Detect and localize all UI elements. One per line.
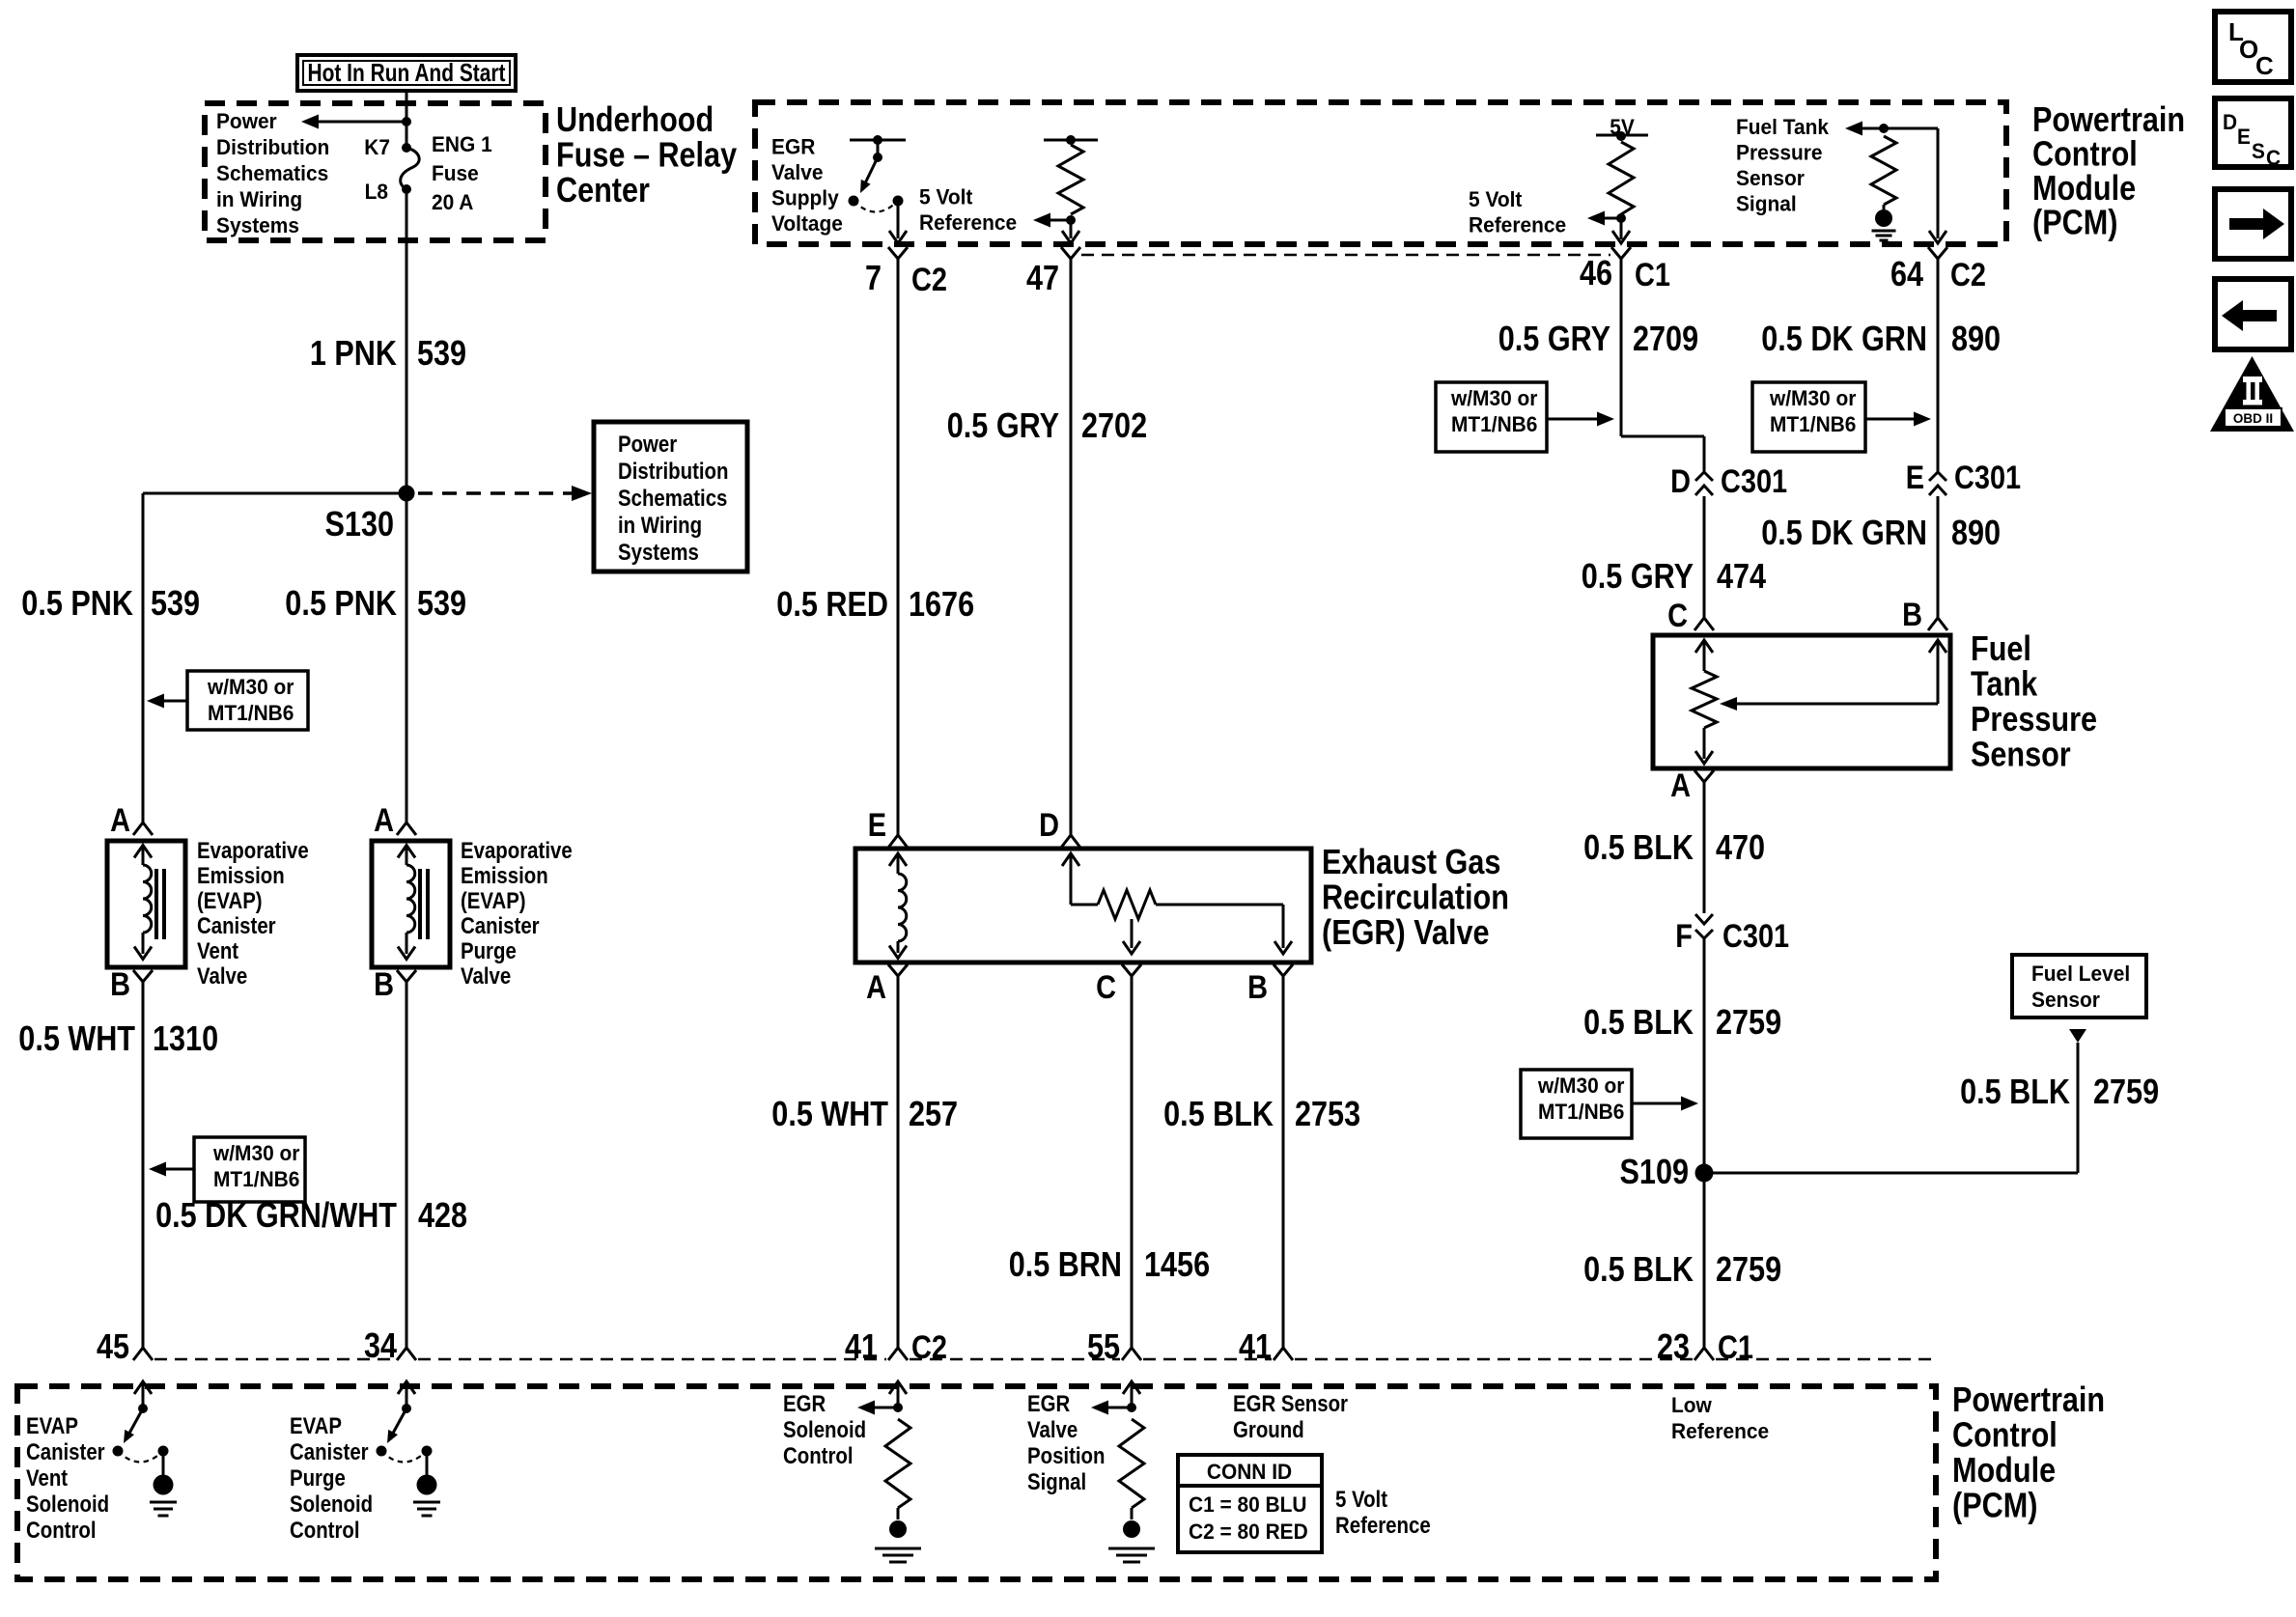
svg-text:Powertrain: Powertrain bbox=[1952, 1380, 2105, 1419]
svg-text:Signal: Signal bbox=[1027, 1469, 1086, 1495]
svg-text:B: B bbox=[1247, 969, 1268, 1006]
svg-text:MT1/NB6: MT1/NB6 bbox=[1770, 412, 1856, 436]
svg-text:E: E bbox=[868, 807, 886, 844]
svg-text:Distribution: Distribution bbox=[216, 135, 329, 159]
svg-text:Control: Control bbox=[1952, 1415, 2058, 1455]
svg-text:C2 = 80 RED: C2 = 80 RED bbox=[1189, 1519, 1308, 1544]
svg-text:2702: 2702 bbox=[1081, 405, 1147, 445]
svg-text:OBD II: OBD II bbox=[2233, 411, 2273, 426]
svg-text:MT1/NB6: MT1/NB6 bbox=[1538, 1100, 1624, 1124]
fuel tank pressure sensor box bbox=[1653, 635, 1950, 768]
svg-text:1676: 1676 bbox=[909, 584, 974, 624]
svg-text:2759: 2759 bbox=[1716, 1249, 1781, 1289]
svg-text:w/M30 or: w/M30 or bbox=[1769, 386, 1857, 410]
svg-text:Canister: Canister bbox=[461, 913, 540, 939]
svg-text:EVAP: EVAP bbox=[26, 1413, 78, 1439]
wire: 0.5 DK GRN 890 (upper) bbox=[1937, 273, 1940, 472]
wire: branch from S130 to vent valve bbox=[143, 492, 406, 495]
svg-text:E: E bbox=[1906, 460, 1924, 496]
svg-text:Fuel Level: Fuel Level bbox=[2031, 962, 2130, 986]
EGR valve supply voltage switch bbox=[850, 139, 906, 142]
svg-text:890: 890 bbox=[1951, 319, 2001, 358]
wire: 0.5 GRY 2709 (46 C1 with jog) bbox=[1620, 273, 1623, 436]
svg-text:0.5 BLK: 0.5 BLK bbox=[1583, 1249, 1694, 1289]
svg-text:Power: Power bbox=[216, 109, 277, 133]
svg-text:B: B bbox=[110, 966, 130, 1003]
svg-text:Evaporative: Evaporative bbox=[197, 838, 309, 864]
svg-text:C2: C2 bbox=[911, 262, 947, 298]
svg-text:Hot In Run And Start: Hot In Run And Start bbox=[308, 58, 506, 87]
svg-text:0.5 BRN: 0.5 BRN bbox=[1009, 1244, 1122, 1284]
wire: 0.5 WHT 257 bbox=[897, 990, 900, 1348]
svg-text:Distribution: Distribution bbox=[618, 459, 729, 485]
svg-text:F: F bbox=[1675, 918, 1693, 955]
svg-text:Emission: Emission bbox=[197, 863, 285, 889]
svg-text:0.5 PNK: 0.5 PNK bbox=[285, 583, 397, 623]
svg-text:A: A bbox=[866, 969, 886, 1006]
connector E C301 bbox=[1929, 472, 1946, 481]
svg-text:C1: C1 bbox=[1635, 257, 1670, 293]
splice S109 bbox=[1695, 1164, 1714, 1183]
svg-text:Reference: Reference bbox=[919, 210, 1017, 235]
wire: 0.5 RED 1676 bbox=[897, 273, 900, 835]
svg-text:Module: Module bbox=[1952, 1450, 2056, 1490]
svg-text:C2: C2 bbox=[1950, 257, 1986, 293]
svg-text:Control: Control bbox=[26, 1518, 97, 1544]
svg-text:64: 64 bbox=[1890, 254, 1923, 293]
svg-text:Evaporative: Evaporative bbox=[461, 838, 573, 864]
svg-text:41: 41 bbox=[845, 1326, 878, 1366]
svg-text:C301: C301 bbox=[1954, 460, 2021, 496]
dashed box: Powertrain Control Module (bottom) bbox=[17, 1386, 1936, 1579]
arrow to power distribution schematics (left) bbox=[319, 121, 406, 124]
pin 55 bbox=[1122, 1348, 1141, 1360]
wire: 0.5 PNK 539 (right) bbox=[406, 493, 408, 811]
pin 7 C2 bbox=[888, 247, 908, 259]
callout: w/M30 or MT1/NB6 (lower left) bbox=[194, 1137, 305, 1202]
pin 41 C2 bbox=[888, 1348, 908, 1360]
svg-text:41: 41 bbox=[1239, 1326, 1272, 1366]
pin E (EGR valve) bbox=[888, 835, 908, 848]
svg-text:890: 890 bbox=[1951, 513, 2001, 552]
svg-text:(EVAP): (EVAP) bbox=[197, 888, 263, 914]
pin 64 C2 bbox=[1928, 247, 1947, 259]
svg-text:Signal: Signal bbox=[1736, 192, 1797, 216]
svg-text:C301: C301 bbox=[1722, 918, 1789, 955]
svg-text:539: 539 bbox=[417, 333, 466, 373]
svg-text:C: C bbox=[1667, 598, 1688, 634]
svg-text:Control: Control bbox=[290, 1518, 360, 1544]
wire: 0.5 BLK 2759 (above S109) bbox=[1703, 938, 1706, 1173]
pin 23 C1 bbox=[1694, 1348, 1714, 1360]
svg-text:1310: 1310 bbox=[153, 1018, 218, 1058]
wire: 0.5 BLK 2759 (below S109) bbox=[1703, 1173, 1706, 1348]
svg-text:2759: 2759 bbox=[2093, 1072, 2159, 1111]
svg-text:Exhaust Gas: Exhaust Gas bbox=[1322, 842, 1500, 881]
svg-text:Pressure: Pressure bbox=[1971, 699, 2097, 739]
svg-text:Systems: Systems bbox=[216, 213, 299, 237]
svg-text:w/M30 or: w/M30 or bbox=[212, 1141, 300, 1165]
pin C (fuel tank pressure sensor) bbox=[1694, 618, 1714, 630]
svg-text:55: 55 bbox=[1087, 1326, 1120, 1366]
wire: 0.5 DK GRN 890 (lower) bbox=[1937, 502, 1940, 618]
svg-text:Vent: Vent bbox=[197, 938, 238, 964]
svg-text:w/M30 or: w/M30 or bbox=[1450, 386, 1538, 410]
svg-text:C1 = 80 BLU: C1 = 80 BLU bbox=[1189, 1492, 1307, 1517]
svg-text:257: 257 bbox=[909, 1094, 958, 1133]
wire: 0.5 WHT 1310 bbox=[142, 996, 145, 1348]
svg-text:A: A bbox=[110, 802, 130, 839]
connector dashed line (top, C1/C2) bbox=[1081, 254, 1610, 257]
icon: arrow right bbox=[2215, 189, 2291, 259]
svg-text:C301: C301 bbox=[1721, 463, 1787, 500]
svg-text:46: 46 bbox=[1580, 253, 1612, 293]
connector F C301 bbox=[1695, 914, 1713, 924]
pin B (fuel tank pressure sensor) bbox=[1928, 618, 1947, 630]
svg-text:Valve: Valve bbox=[1027, 1417, 1078, 1443]
svg-text:428: 428 bbox=[418, 1195, 467, 1235]
svg-text:Solenoid: Solenoid bbox=[783, 1417, 866, 1443]
svg-text:Center: Center bbox=[556, 170, 650, 209]
pin 45 bbox=[133, 1348, 153, 1360]
svg-text:K7: K7 bbox=[364, 135, 390, 159]
svg-text:MT1/NB6: MT1/NB6 bbox=[1451, 412, 1537, 436]
svg-text:Reference: Reference bbox=[1335, 1513, 1431, 1539]
svg-text:470: 470 bbox=[1716, 827, 1765, 867]
svg-text:2759: 2759 bbox=[1716, 1002, 1781, 1042]
svg-text:Canister: Canister bbox=[26, 1439, 105, 1465]
icon: DESC bbox=[2215, 98, 2291, 167]
callout: w/M30 or MT1/NB6 (left of pin 46 wire) bbox=[1436, 382, 1547, 452]
wire: 0.5 BLK 2753 bbox=[1282, 990, 1285, 1348]
svg-text:0.5 DK GRN/WHT: 0.5 DK GRN/WHT bbox=[155, 1195, 397, 1235]
svg-text:A: A bbox=[1670, 767, 1691, 804]
svg-text:Fuse – Relay: Fuse – Relay bbox=[556, 135, 737, 175]
svg-text:CONN ID: CONN ID bbox=[1207, 1460, 1292, 1484]
pin B (vent valve) bbox=[133, 970, 153, 982]
svg-text:Emission: Emission bbox=[461, 863, 548, 889]
svg-text:0.5 DK GRN: 0.5 DK GRN bbox=[1761, 319, 1927, 358]
pin 47 bbox=[1061, 247, 1080, 259]
pin A (fuel tank pressure sensor) bbox=[1694, 770, 1714, 782]
svg-text:Control: Control bbox=[783, 1443, 854, 1469]
svg-text:Ground: Ground bbox=[1233, 1417, 1304, 1443]
svg-text:EGR Sensor: EGR Sensor bbox=[1233, 1391, 1348, 1417]
svg-text:EVAP: EVAP bbox=[290, 1413, 342, 1439]
box: Hot In Run And Start bbox=[297, 55, 516, 91]
svg-text:Pressure: Pressure bbox=[1736, 141, 1823, 165]
svg-text:Purge: Purge bbox=[461, 938, 517, 964]
svg-text:5 Volt: 5 Volt bbox=[1469, 187, 1523, 211]
junction dot at fuse feed bbox=[402, 117, 411, 126]
icon: LOC bbox=[2215, 12, 2291, 82]
svg-text:Solenoid: Solenoid bbox=[290, 1492, 373, 1518]
svg-text:D: D bbox=[1039, 807, 1059, 844]
EVAP canister vent solenoid control switch bbox=[134, 1381, 152, 1394]
svg-text:Sensor: Sensor bbox=[1971, 735, 2071, 774]
dashed arrow: S130 to power distribution schematics bbox=[418, 491, 572, 495]
EGR valve box bbox=[855, 849, 1311, 962]
svg-text:C2: C2 bbox=[911, 1329, 947, 1366]
svg-text:MT1/NB6: MT1/NB6 bbox=[208, 701, 294, 725]
svg-text:2709: 2709 bbox=[1633, 319, 1698, 358]
callout: w/M30 or MT1/NB6 (upper left) bbox=[187, 671, 308, 730]
pin B (EGR valve) bbox=[1274, 964, 1293, 976]
icon: OBD II triangle bbox=[2210, 356, 2294, 432]
svg-text:0.5 RED: 0.5 RED bbox=[776, 584, 888, 624]
svg-text:0.5 BLK: 0.5 BLK bbox=[1960, 1072, 2070, 1111]
svg-text:Valve: Valve bbox=[771, 160, 824, 184]
svg-text:47: 47 bbox=[1026, 258, 1059, 297]
svg-text:539: 539 bbox=[151, 583, 200, 623]
svg-text:Canister: Canister bbox=[197, 913, 276, 939]
svg-text:Fuel Tank: Fuel Tank bbox=[1736, 115, 1830, 139]
wire: 0.5 GRY 2702 bbox=[1070, 273, 1073, 835]
svg-text:0.5 BLK: 0.5 BLK bbox=[1583, 827, 1694, 867]
svg-text:EGR: EGR bbox=[771, 135, 815, 159]
svg-text:D: D bbox=[2223, 110, 2237, 134]
svg-text:B: B bbox=[1902, 597, 1922, 633]
svg-text:23: 23 bbox=[1657, 1326, 1690, 1366]
box: Fuel Level Sensor bbox=[2012, 955, 2146, 1018]
svg-text:E: E bbox=[2237, 125, 2251, 149]
svg-text:Sensor: Sensor bbox=[1736, 166, 1805, 190]
svg-text:7: 7 bbox=[865, 258, 882, 297]
pin 34 bbox=[397, 1348, 416, 1360]
svg-text:1 PNK: 1 PNK bbox=[310, 333, 397, 373]
box: Power Distribution Schematics in Wiring Systems bbox=[594, 422, 747, 572]
EVAP canister vent valve bbox=[107, 841, 185, 967]
pin C (EGR valve) bbox=[1122, 964, 1141, 976]
wire: 0.5 BRN 1456 bbox=[1131, 990, 1134, 1348]
icon: arrow left bbox=[2215, 279, 2291, 349]
svg-text:Underhood: Underhood bbox=[556, 99, 714, 139]
svg-text:0.5 GRY: 0.5 GRY bbox=[1498, 319, 1610, 358]
svg-text:20 A: 20 A bbox=[432, 190, 474, 214]
svg-text:45: 45 bbox=[97, 1326, 129, 1366]
svg-text:C: C bbox=[2255, 51, 2274, 80]
svg-text:0.5 PNK: 0.5 PNK bbox=[21, 583, 133, 623]
pin A (purge valve) bbox=[406, 811, 408, 823]
svg-text:Fuel: Fuel bbox=[1971, 628, 2031, 668]
wire: 0.5 BLK 2759 (fuel level sensor branch) bbox=[2069, 1029, 2086, 1043]
svg-text:Canister: Canister bbox=[290, 1439, 369, 1465]
svg-text:Solenoid: Solenoid bbox=[26, 1492, 109, 1518]
EGR solenoid control (in PCM) bbox=[889, 1381, 907, 1394]
resistor: 5 volt reference (pin 47) bbox=[1044, 139, 1098, 142]
svg-text:0.5 WHT: 0.5 WHT bbox=[18, 1018, 135, 1058]
connector D C301 bbox=[1695, 472, 1713, 481]
wire: 0.5 BLK 470 bbox=[1703, 796, 1706, 913]
svg-text:0.5 WHT: 0.5 WHT bbox=[771, 1094, 888, 1133]
svg-text:EGR: EGR bbox=[783, 1391, 826, 1417]
svg-text:EGR: EGR bbox=[1027, 1391, 1070, 1417]
svg-text:Systems: Systems bbox=[618, 540, 699, 566]
svg-text:1456: 1456 bbox=[1144, 1244, 1210, 1284]
svg-text:5 Volt: 5 Volt bbox=[919, 185, 973, 209]
svg-text:w/M30 or: w/M30 or bbox=[1537, 1073, 1625, 1098]
svg-text:0.5 BLK: 0.5 BLK bbox=[1583, 1002, 1694, 1042]
svg-text:Power: Power bbox=[618, 432, 677, 458]
svg-text:in Wiring: in Wiring bbox=[618, 513, 702, 539]
svg-text:C1: C1 bbox=[1718, 1329, 1753, 1366]
svg-text:(EGR) Valve: (EGR) Valve bbox=[1322, 912, 1490, 952]
svg-text:Schematics: Schematics bbox=[618, 486, 727, 512]
callout: w/M30 or MT1/NB6 (near S109) bbox=[1521, 1070, 1632, 1138]
connector dashed line (PCM bottom pins) bbox=[154, 1358, 395, 1361]
dashed box: Underhood Fuse - Relay Center bbox=[205, 103, 546, 240]
wire: 0.5 DK GRN/WHT 428 bbox=[406, 996, 408, 1348]
pin 41 (EGR sensor ground) bbox=[1274, 1348, 1293, 1360]
svg-text:S130: S130 bbox=[325, 504, 395, 544]
svg-text:S: S bbox=[2252, 139, 2265, 163]
svg-text:0.5 GRY: 0.5 GRY bbox=[947, 405, 1059, 445]
svg-text:2753: 2753 bbox=[1295, 1094, 1360, 1133]
svg-text:C: C bbox=[1096, 969, 1116, 1006]
svg-text:539: 539 bbox=[417, 583, 466, 623]
pin B (purge valve) bbox=[397, 970, 416, 982]
svg-text:Position: Position bbox=[1027, 1443, 1106, 1469]
svg-text:Schematics: Schematics bbox=[216, 161, 328, 185]
svg-text:Tank: Tank bbox=[1971, 664, 2038, 704]
table: CONN ID (C1 = 80 BLU / C2 = 80 RED) bbox=[1178, 1455, 1322, 1552]
svg-text:Recirculation: Recirculation bbox=[1322, 878, 1509, 917]
svg-text:0.5 BLK: 0.5 BLK bbox=[1163, 1094, 1274, 1133]
svg-text:ENG 1: ENG 1 bbox=[432, 132, 492, 156]
svg-text:474: 474 bbox=[1717, 556, 1766, 596]
svg-text:Vent: Vent bbox=[26, 1465, 68, 1492]
pin A (vent valve) bbox=[142, 811, 145, 823]
svg-text:5 Volt: 5 Volt bbox=[1335, 1487, 1387, 1513]
callout: w/M30 or MT1/NB6 (left of pin 64 wire) bbox=[1752, 382, 1865, 452]
EVAP canister purge solenoid control switch bbox=[398, 1381, 415, 1394]
svg-text:Reference: Reference bbox=[1469, 213, 1566, 237]
svg-text:Valve: Valve bbox=[197, 963, 247, 990]
splice S130 bbox=[399, 486, 415, 502]
svg-text:w/M30 or: w/M30 or bbox=[207, 675, 294, 699]
svg-text:0.5 DK GRN: 0.5 DK GRN bbox=[1761, 513, 1927, 552]
svg-text:Low: Low bbox=[1671, 1393, 1713, 1417]
pin 46 C1 bbox=[1611, 247, 1631, 259]
wire: 1 PNK 539 bbox=[406, 189, 408, 493]
svg-text:S109: S109 bbox=[1620, 1152, 1690, 1191]
svg-text:C: C bbox=[2266, 146, 2281, 170]
svg-text:Valve: Valve bbox=[461, 963, 511, 990]
svg-text:Reference: Reference bbox=[1671, 1419, 1769, 1443]
svg-text:Voltage: Voltage bbox=[771, 211, 843, 236]
svg-text:L8: L8 bbox=[365, 180, 388, 204]
EGR valve solenoid coil bbox=[889, 853, 907, 866]
pin D (EGR valve) bbox=[1061, 835, 1080, 848]
fuse ENG 1 20 A (K7-L8) bbox=[406, 93, 408, 148]
svg-text:in Wiring: in Wiring bbox=[216, 187, 302, 211]
EGR valve position signal (in PCM) bbox=[1123, 1381, 1140, 1394]
svg-text:D: D bbox=[1670, 463, 1691, 500]
svg-text:(PCM): (PCM) bbox=[2032, 203, 2117, 242]
wire: 0.5 PNK 539 (left) bbox=[142, 493, 145, 811]
svg-text:Sensor: Sensor bbox=[2031, 988, 2100, 1012]
pin A (EGR valve) bbox=[888, 964, 908, 976]
EVAP canister purge valve bbox=[372, 841, 450, 967]
svg-text:(EVAP): (EVAP) bbox=[461, 888, 526, 914]
svg-text:Supply: Supply bbox=[771, 186, 839, 210]
svg-text:B: B bbox=[374, 966, 394, 1003]
svg-text:(PCM): (PCM) bbox=[1952, 1486, 2037, 1525]
EGR valve position potentiometer bbox=[1062, 853, 1079, 866]
svg-text:0.5 GRY: 0.5 GRY bbox=[1582, 556, 1694, 596]
svg-text:Fuse: Fuse bbox=[432, 161, 479, 185]
wire: 0.5 GRY 474 bbox=[1703, 502, 1706, 618]
svg-text:Purge: Purge bbox=[290, 1465, 346, 1492]
dashed box: Powertrain Control Module (top) bbox=[755, 102, 2006, 244]
svg-text:MT1/NB6: MT1/NB6 bbox=[213, 1167, 299, 1191]
svg-text:A: A bbox=[374, 802, 394, 839]
